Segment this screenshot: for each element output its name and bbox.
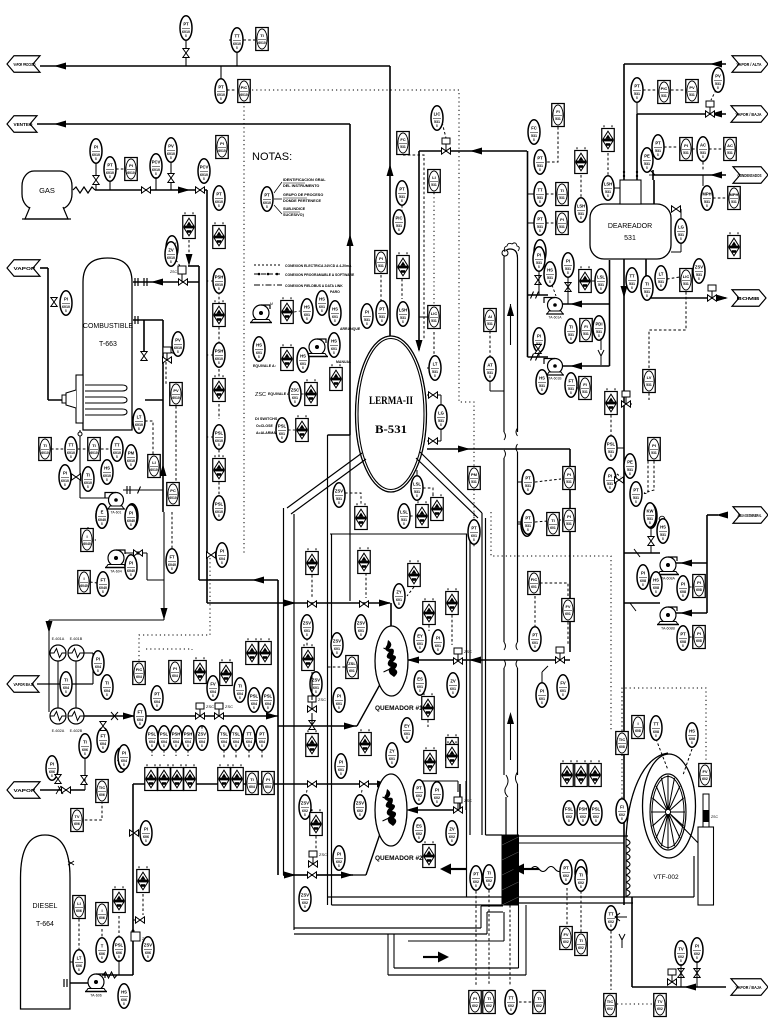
wire — [147, 579, 164, 581]
wire — [390, 603, 392, 638]
svg-text:TA-608B: TA-608B — [661, 627, 676, 631]
safety relief valve symbol (119,901) — [113, 886, 126, 912]
wire — [181, 274, 183, 282]
wire — [236, 51, 238, 66]
svg-text:602: 602 — [607, 1007, 613, 1011]
svg-text:606: 606 — [74, 822, 80, 826]
svg-text:FV: FV — [563, 932, 568, 937]
svg-text:ZY: ZY — [396, 590, 402, 595]
instrument square PI (222,147) — [216, 136, 229, 159]
wire — [440, 395, 442, 406]
instrument HS (303,360) — [297, 348, 309, 372]
svg-text:T-663: T-663 — [99, 341, 117, 348]
svg-text:PSH: PSH — [215, 349, 224, 354]
svg-text:B: B — [65, 309, 67, 313]
svg-text:531: 531 — [431, 183, 437, 187]
svg-text:PT: PT — [634, 84, 640, 89]
svg-text:AC: AC — [727, 143, 733, 148]
flow arrow — [252, 577, 264, 584]
svg-text:B: B — [333, 351, 335, 355]
safety relief valve symbol (611,403) — [605, 388, 618, 414]
safety relief valve symbol (581,775) — [575, 760, 588, 786]
valve (66,790) — [62, 787, 71, 793]
svg-text:E-602B: E-602B — [70, 729, 83, 733]
svg-text:B: B — [609, 486, 611, 490]
vessel DEAREADOR 531 — [590, 171, 671, 259]
signal line — [689, 586, 692, 588]
instrument square PIC (664,92) — [658, 81, 671, 104]
wire — [84, 715, 278, 717]
wire — [569, 449, 571, 652]
svg-text:PT: PT — [154, 692, 160, 697]
instrument HS (663,531) — [657, 519, 669, 543]
instrument PI (65,477) — [59, 465, 71, 489]
instrument PT (419,792) — [413, 780, 425, 804]
svg-text:B: B — [680, 959, 682, 963]
wire — [48, 620, 50, 712]
valve (538,280) — [535, 276, 541, 285]
svg-text:B: B — [223, 744, 225, 748]
svg-text:B: B — [568, 819, 570, 823]
GAS tank — [22, 171, 72, 219]
instrument square FI (585,388) — [579, 377, 592, 400]
svg-text:PT: PT — [264, 193, 270, 198]
signal line — [101, 929, 103, 939]
instrument PSL (164,738) — [158, 726, 170, 750]
safety relief valve symbol (151,779) — [145, 764, 158, 790]
svg-text:FC: FC — [400, 137, 405, 142]
wire — [198, 266, 200, 282]
flow arrow — [710, 61, 722, 68]
svg-text:B: B — [629, 472, 631, 476]
valve (697,973) — [694, 969, 700, 978]
instrument square TIC (102,791) — [96, 780, 109, 803]
svg-text:B: B — [304, 813, 306, 817]
svg-text:B: B — [220, 97, 222, 101]
instrument HS (107,472) — [101, 460, 113, 484]
svg-text:TI: TI — [569, 325, 573, 330]
instrument PI (697,950) — [691, 938, 703, 962]
svg-text:B: B — [139, 722, 141, 726]
safety relief valve symbol (364,562) — [358, 547, 371, 573]
instrument PE (647,160) — [641, 148, 653, 172]
svg-text:6010: 6010 — [41, 451, 49, 455]
svg-text:ZSV: ZSV — [356, 801, 364, 806]
svg-text:PIC: PIC — [241, 85, 248, 90]
wire — [517, 258, 519, 432]
svg-text:PI: PI — [339, 760, 343, 765]
svg-text:606: 606 — [99, 916, 105, 920]
control valve (200,716) — [196, 703, 215, 719]
wire — [600, 356, 602, 365]
svg-text:ZSV: ZSV — [301, 801, 309, 806]
electric signal line — [433, 193, 435, 304]
svg-text:TI: TI — [560, 188, 564, 193]
svg-text:531: 531 — [559, 196, 565, 200]
instrument PCV (204,171) — [198, 159, 210, 183]
svg-text:MANUAL: MANUAL — [336, 360, 352, 364]
safety relief valve symbol (219,237) — [213, 222, 226, 248]
svg-text:B: B — [87, 485, 89, 489]
svg-text:SUB-INDICE: SUB-INDICE — [283, 207, 306, 211]
flow arrow — [407, 657, 419, 664]
svg-text:B: B — [646, 294, 648, 298]
instrument PI (651,516) — [645, 504, 657, 528]
signal line — [165, 362, 167, 385]
svg-text:PI: PI — [337, 694, 341, 699]
svg-text:B: B — [398, 602, 400, 606]
svg-text:CONEXION ELECTRICA 24VCD A 4-2: CONEXION ELECTRICA 24VCD A 4-20mA — [285, 264, 352, 268]
steam coil bellows — [626, 839, 630, 897]
wire — [517, 452, 519, 642]
svg-text:B: B — [235, 744, 237, 748]
svg-text:PT: PT — [218, 85, 224, 90]
svg-text:ES: ES — [416, 824, 422, 829]
signal line — [689, 636, 692, 638]
svg-text:B: B — [489, 375, 491, 379]
svg-text:6010: 6010 — [218, 149, 226, 153]
instrument square PV (176,394) — [170, 383, 183, 406]
wire — [489, 381, 491, 391]
svg-text:T-664: T-664 — [36, 921, 54, 928]
instrument PT (382,313) — [376, 301, 388, 325]
valve (364,604) — [360, 601, 369, 607]
svg-text:6010: 6010 — [127, 171, 135, 175]
flow arrow — [507, 712, 514, 724]
signal line — [218, 327, 220, 344]
flow arrow — [680, 610, 692, 617]
instrument PM (131,457) — [125, 445, 137, 469]
flow direction arrow — [423, 952, 449, 963]
svg-text:PIC: PIC — [396, 216, 403, 221]
instrument PT (636,494) — [630, 482, 642, 506]
svg-text:B: B — [533, 138, 535, 142]
svg-text:B: B — [698, 277, 700, 281]
instrument T (102,950) — [96, 938, 108, 962]
control valve (313,864) — [309, 851, 328, 867]
svg-text:TI: TI — [579, 873, 583, 878]
svg-text:PT: PT — [473, 872, 479, 877]
instrument PT (157,698) — [151, 686, 163, 710]
svg-text:PV: PV — [175, 338, 181, 343]
safety relief valve symbol (312,563) — [306, 548, 319, 574]
off-page flag VAPOR (7,268) — [7, 260, 40, 277]
instrument square PI (268,783) — [262, 772, 275, 795]
valve (433,441) — [429, 438, 438, 444]
instrument PDI (599,328) — [593, 316, 605, 340]
instrument PT (683,638) — [677, 626, 689, 650]
instrument PI (438,642) — [432, 630, 444, 654]
signal line — [218, 404, 220, 419]
svg-text:FI: FI — [556, 109, 560, 114]
off-page flag VAPOR / BAJA (731,987) — [731, 979, 768, 996]
wire — [133, 919, 136, 921]
instrument TT (611,918) — [605, 906, 617, 930]
svg-text:B: B — [118, 955, 120, 959]
wire — [645, 259, 647, 298]
wire — [132, 784, 134, 975]
wire — [486, 834, 503, 836]
instrument PI (341,766) — [335, 754, 347, 778]
svg-text:6010: 6010 — [240, 93, 248, 97]
safety relief valve symbol (237,779) — [231, 764, 244, 790]
svg-text:PV: PV — [173, 388, 179, 393]
svg-text:B: B — [218, 514, 220, 518]
flow arrow — [416, 340, 423, 352]
off-page flag BOMB (732,298) — [732, 290, 766, 307]
instrument PIC (399,222) — [393, 210, 405, 234]
electric signal line — [207, 280, 214, 282]
wire — [70, 982, 89, 984]
union — [138, 487, 141, 494]
instrument TV (681,953) — [675, 941, 687, 965]
svg-text:531: 531 — [646, 383, 652, 387]
svg-text:531: 531 — [583, 332, 589, 336]
svg-text:SUCESIVO): SUCESIVO) — [283, 213, 305, 217]
instrument ZSV (305,899) — [299, 887, 311, 911]
svg-text:TI: TI — [105, 681, 109, 686]
wire — [49, 619, 164, 621]
svg-text:B: B — [95, 157, 97, 161]
instrument LSH (581,210) — [575, 198, 587, 222]
svg-text:PI: PI — [560, 217, 564, 222]
wire — [538, 271, 540, 295]
valve (84,780) — [81, 776, 87, 785]
safety relief valve symbol (567,775) — [561, 760, 574, 786]
svg-text:EY: EY — [417, 634, 423, 639]
svg-text:531: 531 — [661, 94, 667, 98]
valve (312,875) — [308, 872, 317, 878]
pump TA-601 (116,500) — [105, 493, 125, 515]
svg-text:HS: HS — [689, 729, 695, 734]
instrument square TI (45,449) — [39, 438, 52, 461]
wire — [469, 534, 471, 835]
electric signal line — [139, 558, 210, 661]
svg-text:B: B — [261, 744, 263, 748]
signal line — [254, 264, 282, 266]
wire — [37, 123, 350, 125]
svg-text:TI: TI — [487, 996, 491, 1001]
svg-text:TA-601B: TA-601B — [548, 377, 562, 381]
svg-text:B: B — [175, 744, 177, 748]
instrument square TV (77,820) — [71, 809, 84, 832]
svg-text:PSL: PSL — [264, 694, 273, 699]
instrument ZY (392,755) — [386, 743, 398, 767]
svg-text:VAPOR / BAJA: VAPOR / BAJA — [736, 985, 763, 990]
svg-text:B: B — [527, 528, 529, 532]
instrument LT (79,962) — [73, 950, 85, 974]
wire — [650, 523, 652, 553]
instrument PE (630,466) — [624, 454, 636, 478]
signal line — [643, 89, 657, 91]
heat exchanger E-602B (76,716) — [68, 708, 84, 733]
signal line — [218, 369, 220, 378]
wire — [427, 448, 570, 450]
svg-text:TA-608A: TA-608A — [661, 577, 676, 581]
svg-text:PT: PT — [416, 786, 422, 791]
svg-text:ARRANQUE: ARRANQUE — [340, 327, 361, 331]
union — [536, 292, 539, 299]
wire — [503, 458, 505, 642]
svg-text:TI: TI — [645, 282, 649, 287]
instrument PI (131,567) — [125, 555, 137, 579]
wire — [70, 961, 73, 963]
flow arrow — [151, 279, 163, 286]
svg-text:B: B — [657, 153, 659, 157]
instrument PI (96,151) — [90, 139, 102, 163]
fan VTF-002 — [626, 753, 709, 897]
signal line — [227, 89, 236, 91]
wire — [277, 580, 279, 875]
safety relief valve symbol (581,162) — [575, 147, 588, 173]
flow arrow — [178, 187, 190, 194]
flex hose — [103, 972, 117, 978]
signal line — [534, 596, 536, 627]
instrument square PI (654,449) — [648, 438, 661, 461]
svg-text:B: B — [419, 689, 421, 693]
svg-text:TIC: TIC — [619, 737, 626, 742]
svg-text:TV: TV — [74, 814, 79, 819]
safety relief valve symbol (302,430) — [296, 415, 309, 441]
svg-text:ZSV: ZSV — [303, 621, 311, 626]
instrument square PI (699,637) — [693, 626, 706, 649]
instrument PSL (219,437) — [213, 425, 225, 449]
wire — [614, 187, 620, 189]
signal line — [451, 615, 453, 645]
instrument square LI (434,181) — [428, 170, 441, 193]
svg-text:B: B — [691, 741, 693, 745]
instrument AC (703,149) — [697, 137, 709, 161]
svg-text:B: B — [185, 34, 187, 38]
instrument LSH (403,314) — [397, 302, 409, 326]
instrument ZSV (148,949) — [142, 937, 154, 961]
instrument PT (402,193) — [396, 181, 408, 205]
svg-text:531: 531 — [651, 451, 657, 455]
wire — [125, 552, 147, 554]
instrument PT (110,169) — [104, 157, 116, 181]
svg-text:PI: PI — [63, 471, 67, 476]
svg-text:PCV: PCV — [200, 165, 209, 170]
svg-text:E-601B: E-601B — [70, 637, 83, 641]
valve (651,541) — [648, 537, 654, 546]
instrument square I (638,727) — [632, 716, 645, 739]
svg-text:I: I — [101, 908, 102, 913]
wire — [510, 304, 512, 345]
signal line — [702, 162, 704, 170]
svg-text:531: 531 — [559, 225, 565, 229]
safety relief valve symbol (287,312) — [281, 297, 294, 323]
svg-text:PSH: PSH — [215, 275, 224, 280]
wire — [541, 672, 543, 683]
instrument TI (66,684) — [60, 672, 72, 696]
instrument square TI (553,524) — [547, 513, 560, 536]
safety relief valve symbol (312,745) — [306, 730, 319, 756]
safety relief valve symbol (177,779) — [171, 764, 184, 790]
instrument TT (632,280) — [626, 268, 638, 292]
svg-text:LI: LI — [432, 175, 436, 180]
instrument PSH (219,355) — [213, 343, 225, 367]
valve (200,190) — [196, 187, 205, 193]
instrument TT (656,728) — [650, 716, 662, 740]
svg-text:B: B — [549, 280, 551, 284]
instrument LSL (417,488) — [411, 476, 423, 500]
instrument PI (98,663) — [92, 651, 104, 675]
wire — [680, 243, 682, 252]
svg-text:LSL: LSL — [400, 510, 408, 515]
svg-text:B: B — [236, 46, 238, 50]
signal line — [626, 403, 632, 405]
svg-text:B: B — [321, 309, 323, 313]
svg-text:B: B — [334, 319, 336, 323]
wire — [624, 552, 660, 554]
signal line — [87, 527, 89, 538]
instrument PSL (611,448) — [605, 436, 617, 460]
instrument TI (581,879) — [575, 867, 587, 891]
valve (312,604) — [308, 601, 317, 607]
svg-text:B: B — [510, 1008, 512, 1012]
instrument PI (131,517) — [125, 505, 137, 529]
instrument ZSV (305,807) — [299, 795, 311, 819]
valve (186,53) — [183, 49, 189, 58]
wire — [327, 435, 329, 905]
svg-text:HS: HS — [547, 268, 553, 273]
svg-text:HS: HS — [304, 305, 310, 310]
svg-text:PSL: PSL — [215, 431, 224, 436]
svg-text:CONDENSADOS: CONDENSADOS — [738, 173, 762, 178]
svg-text:B: B — [539, 229, 541, 233]
svg-text:B: B — [267, 706, 269, 710]
instrument PSL (254,700) — [248, 688, 260, 712]
svg-text:B: B — [294, 400, 296, 404]
svg-text:B: B — [163, 744, 165, 748]
svg-text:B: B — [171, 567, 173, 571]
electric signal line — [622, 688, 706, 772]
flow direction arrow — [513, 864, 539, 875]
svg-text:531: 531 — [683, 151, 689, 155]
svg-text:608: 608 — [696, 639, 702, 643]
svg-text:B: B — [642, 583, 644, 587]
signal line — [642, 461, 648, 494]
svg-text:B: B — [610, 454, 612, 458]
electric signal line — [252, 90, 474, 520]
signal line — [218, 445, 220, 457]
wire — [562, 365, 610, 367]
svg-text:QUEMADOR #2: QUEMADOR #2 — [375, 855, 423, 862]
valve (211,555) — [207, 552, 216, 558]
wire — [617, 447, 624, 449]
signal line — [380, 275, 382, 301]
svg-text:B: B — [381, 319, 383, 323]
signal line — [223, 750, 225, 758]
safety relief valve symbol (595,775) — [589, 760, 602, 786]
svg-text:B: B — [635, 500, 637, 504]
svg-text:ZSV: ZSV — [312, 678, 320, 683]
svg-text:B: B — [539, 168, 541, 172]
instrument AT (490,369) — [484, 357, 496, 381]
svg-text:LI: LI — [77, 901, 81, 906]
signal line — [547, 127, 558, 162]
wire — [278, 725, 357, 727]
instrument HS (542,382) — [536, 370, 548, 394]
svg-text:B: B — [696, 956, 698, 960]
svg-text:EQUIVALE A:: EQUIVALE A: — [268, 392, 291, 396]
svg-text:6010: 6010 — [150, 468, 158, 472]
instrument square PIC (244,91) — [238, 80, 251, 103]
svg-text:FIC: FIC — [136, 667, 143, 672]
svg-text:B: B — [534, 645, 536, 649]
signal line — [488, 890, 490, 985]
signal line — [151, 750, 153, 756]
